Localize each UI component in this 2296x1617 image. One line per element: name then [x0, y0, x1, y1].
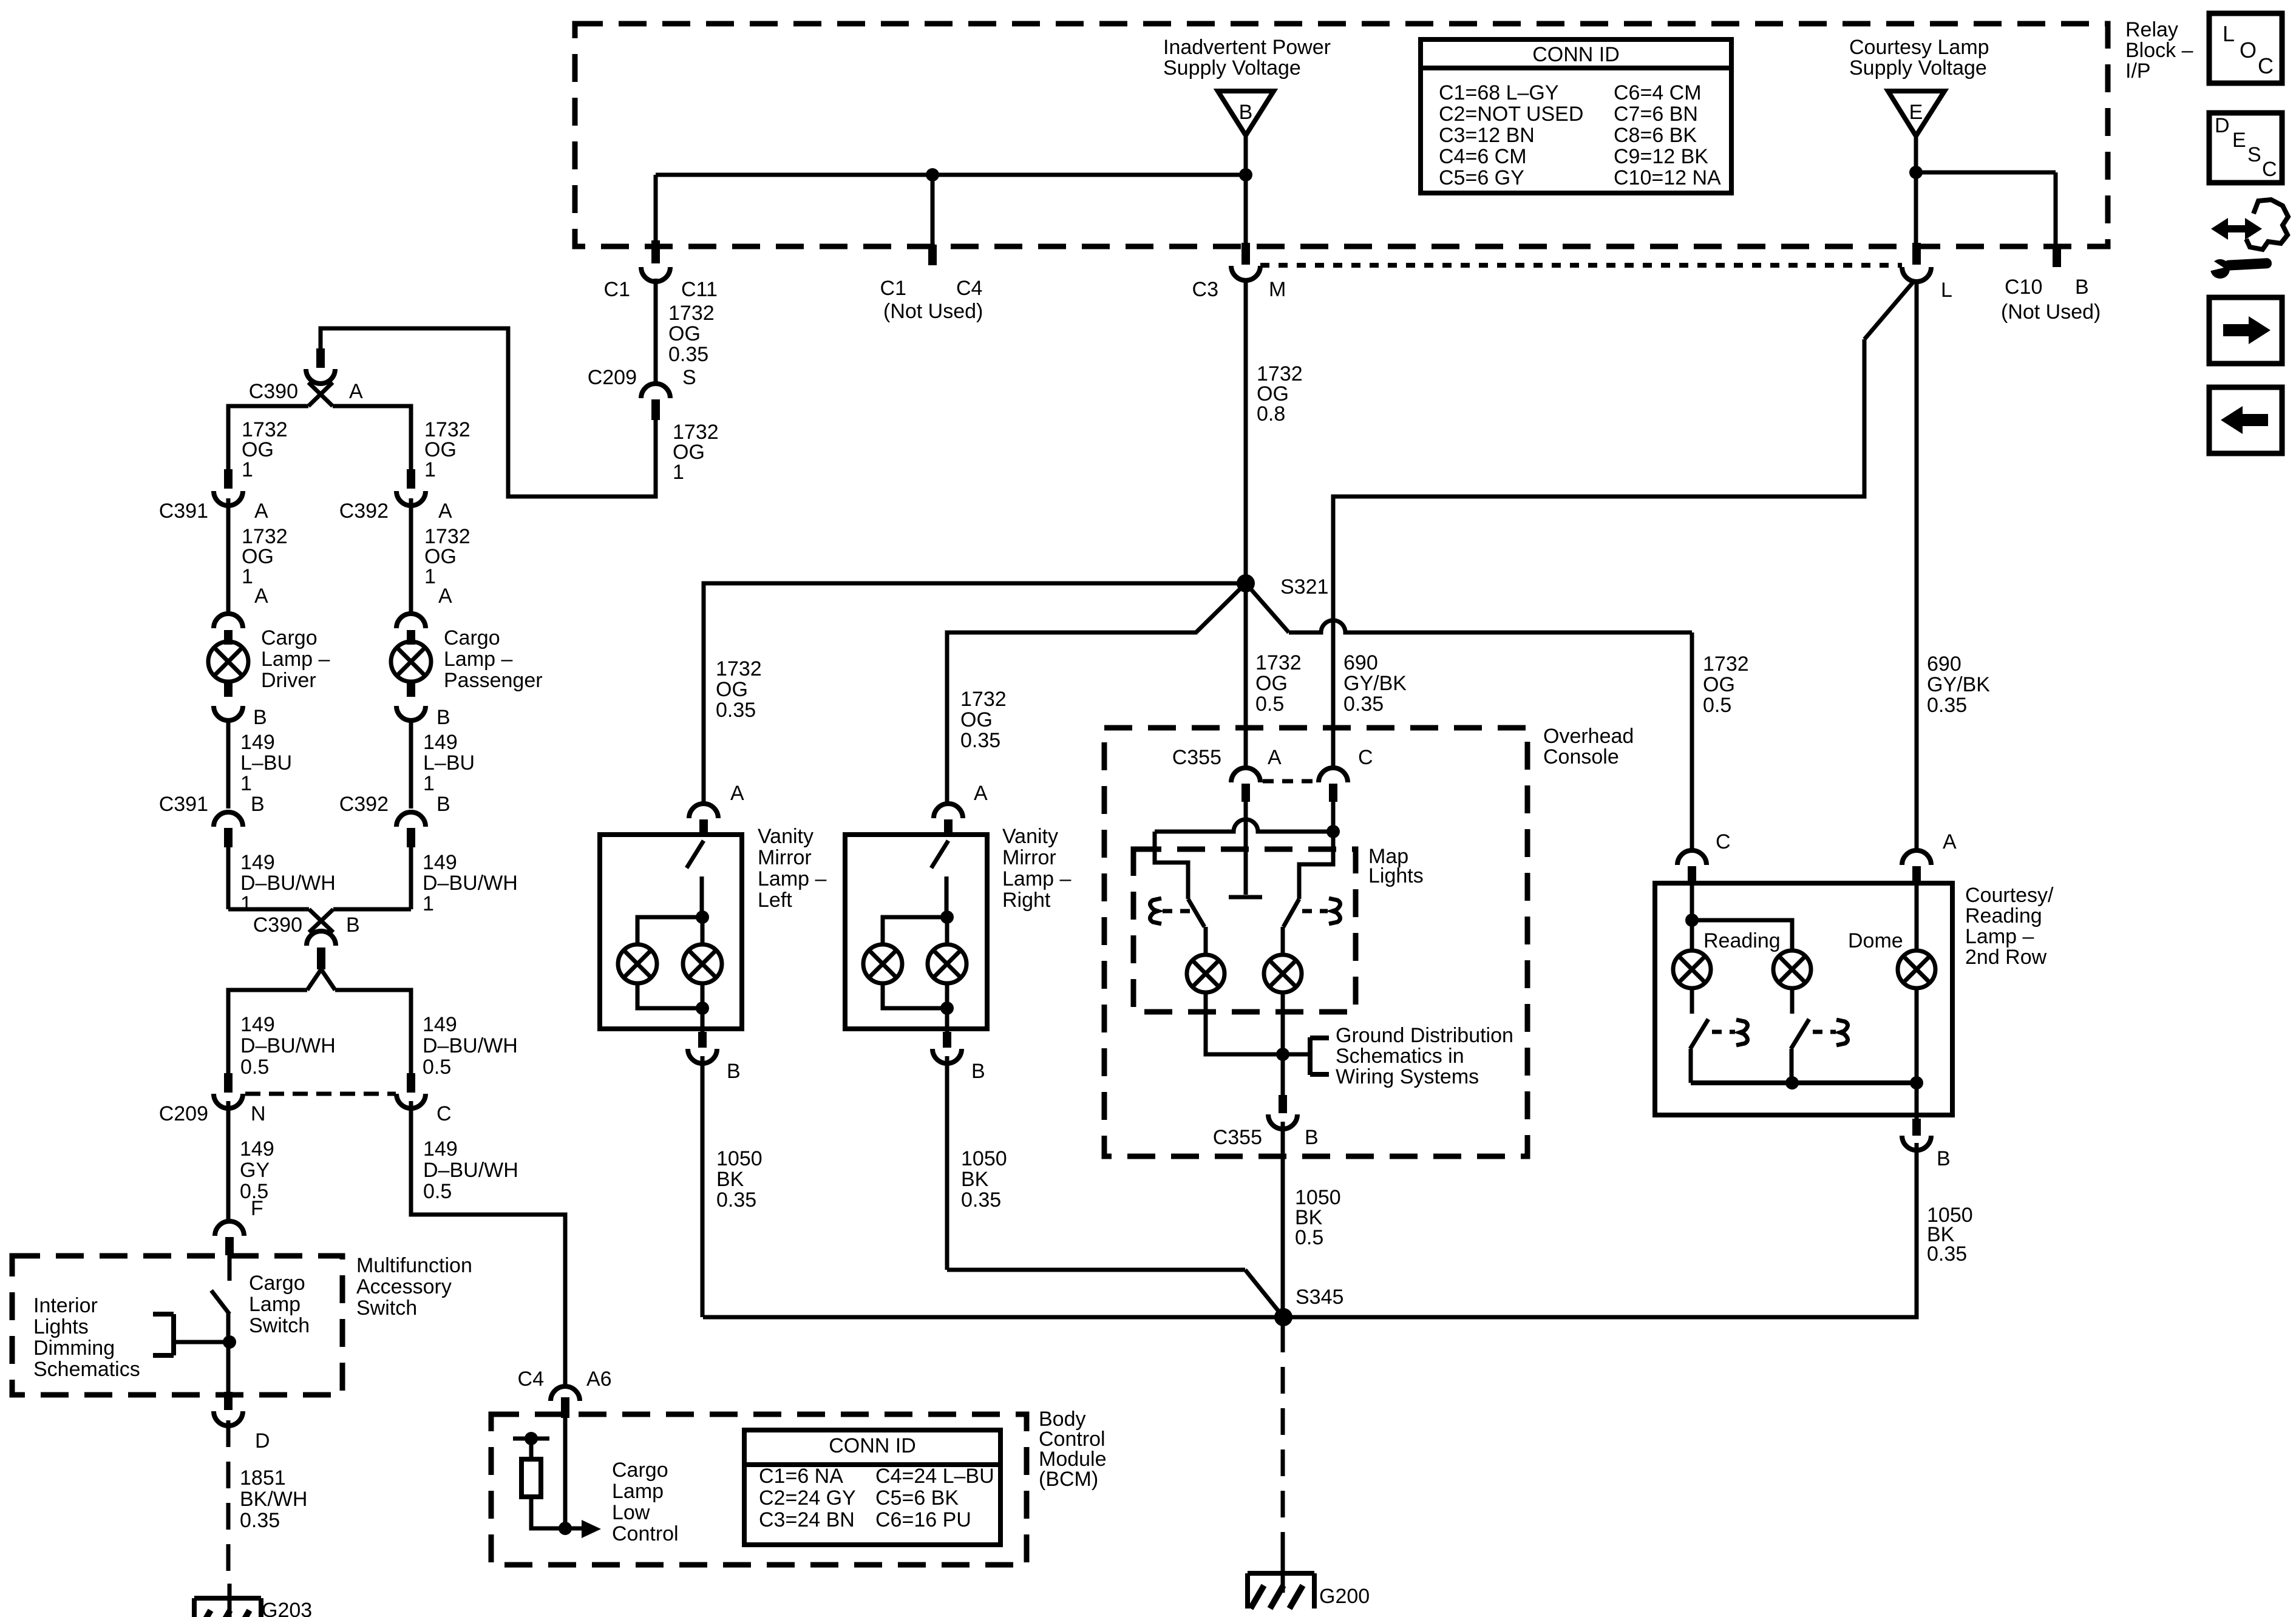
svg-text:Cargo: Cargo [444, 626, 500, 649]
svg-text:D–BU/WH: D–BU/WH [240, 872, 336, 895]
svg-text:Lamp –: Lamp – [1002, 867, 1071, 890]
svg-text:149: 149 [423, 731, 458, 754]
svg-text:B: B [436, 793, 450, 816]
label 149 D-BU/WH 0.5 (to BCM) [423, 1137, 518, 1203]
svg-text:Schematics in: Schematics in [1336, 1045, 1464, 1068]
label 1732 OG 1 (passenger branch) [424, 418, 470, 481]
svg-text:N: N [251, 1102, 266, 1125]
svg-text:S: S [2247, 143, 2261, 166]
connector C390 pin A [249, 348, 363, 403]
svg-text:C: C [1358, 746, 1373, 769]
split below C390 B [228, 969, 411, 1074]
splice S345 [703, 1286, 1343, 1326]
vanity left lamp 2 [683, 944, 722, 983]
svg-text:Vanity: Vanity [758, 825, 813, 848]
svg-text:Mirror: Mirror [1002, 846, 1056, 869]
svg-text:C2=24 GY: C2=24 GY [759, 1486, 856, 1510]
svg-text:BK/WH: BK/WH [240, 1488, 307, 1511]
power symbol E (Courtesy Lamp Supply Voltage) [1888, 91, 1944, 136]
label 149 D-BU/WH 1 (passenger) [423, 851, 518, 915]
svg-text:Dimming: Dimming [33, 1337, 115, 1360]
wire S321 down to C355 A [1244, 583, 1248, 769]
label 1050 BK 0.35 (vanity right) [961, 1147, 1007, 1212]
DESC navigation box [2209, 113, 2282, 183]
vanity right lamp 2 [928, 944, 966, 983]
courtesy ground rail [1691, 988, 1923, 1120]
svg-text:E: E [2232, 129, 2246, 152]
svg-text:1: 1 [423, 892, 434, 915]
wire 1732 OG 0.35 from C11 to C209 [654, 279, 658, 385]
label 1732 OG 1 (C392) [424, 525, 470, 588]
svg-text:B: B [251, 793, 265, 816]
svg-text:1: 1 [240, 892, 252, 915]
svg-text:OG: OG [668, 322, 701, 345]
connector C10 pin B (Not Used) [2001, 245, 2101, 324]
label 1732 OG 0.35 [668, 302, 715, 366]
svg-text:M: M [1269, 278, 1286, 301]
wire 1732 OG 1 into cargo lamp passenger [409, 498, 413, 615]
wire S321 to courtesy reading lamp C (with hop) [1246, 583, 1692, 852]
wire 1732 OG 1 into cargo lamp driver [226, 498, 231, 615]
svg-text:0.5: 0.5 [1255, 693, 1284, 716]
pin A cargo lamp passenger [396, 585, 452, 645]
connector C391 pin A [159, 469, 268, 523]
svg-text:C: C [2262, 158, 2277, 181]
svg-text:B: B [436, 706, 450, 729]
svg-text:Relay: Relay [2125, 18, 2178, 41]
svg-text:0.5: 0.5 [240, 1056, 269, 1079]
LOC navigation box [2209, 13, 2282, 83]
map lights dashed box [1133, 849, 1356, 1012]
wire 149 L-BU 1 driver [226, 720, 231, 808]
svg-text:C209: C209 [588, 366, 637, 389]
vanity right lamp 1 [863, 944, 902, 983]
svg-text:1732: 1732 [1255, 651, 1302, 674]
wire S345 to G200 (dashed) [1281, 1326, 1285, 1560]
svg-text:OG: OG [716, 678, 748, 701]
svg-text:1: 1 [423, 772, 435, 795]
svg-text:D–BU/WH: D–BU/WH [423, 1159, 518, 1182]
label 149 D-BU/WH 0.5 (left) [240, 1013, 336, 1079]
courtesy reading lamp 2nd row box [1655, 883, 1952, 1115]
svg-text:0.5: 0.5 [423, 1180, 452, 1203]
connector C209 pin N [159, 1073, 266, 1125]
svg-text:1732: 1732 [1703, 653, 1749, 676]
vanity left lamp 1 [618, 944, 657, 983]
svg-text:OG: OG [1255, 672, 1288, 695]
svg-text:A: A [438, 585, 452, 608]
wire S321 to vanity mirror right [947, 583, 1246, 805]
wire 1851 BK/WH 0.35 to G203 (dashed) [226, 1420, 231, 1585]
svg-text:149: 149 [240, 731, 275, 754]
svg-text:I/P: I/P [2125, 59, 2151, 83]
svg-text:Reading: Reading [1703, 929, 1781, 952]
wire from E to pins L and C10-B [1916, 136, 2056, 245]
svg-text:C9=12 BK: C9=12 BK [1614, 145, 1708, 168]
svg-text:C6=16 PU: C6=16 PU [875, 1508, 971, 1531]
vanity mirror left switch [687, 841, 704, 917]
wire to pin D [226, 1342, 231, 1393]
label 1732 OG 0.35 (vanity left) [716, 657, 762, 722]
label 1732 OG 0.35 (vanity right) [960, 688, 1007, 752]
wire 690 GY/BK from pin L [1333, 280, 1917, 852]
wire 149 D-BU/WH 1 passenger [409, 847, 413, 909]
ground G200 [1248, 1559, 1370, 1609]
svg-text:BK: BK [716, 1168, 744, 1191]
svg-text:1: 1 [242, 565, 253, 588]
map light lamp right [1264, 955, 1302, 992]
svg-text:Cargo: Cargo [261, 626, 318, 649]
svg-text:0.8: 0.8 [1257, 402, 1285, 425]
pin B cargo lamp driver [214, 680, 267, 729]
svg-text:149: 149 [240, 1137, 274, 1161]
svg-text:Lamp –: Lamp – [261, 648, 330, 671]
courtesy reading lamp 1 [1673, 951, 1711, 988]
vanity left lamps wiring [637, 910, 709, 1032]
wire bus inside relay block from B [656, 135, 1246, 245]
svg-text:B: B [971, 1060, 985, 1083]
pin F cargo lamp switch [215, 1197, 263, 1255]
cargo lamp passenger [391, 626, 543, 692]
svg-text:C2=NOT USED: C2=NOT USED [1439, 103, 1583, 126]
svg-text:E: E [1909, 101, 1923, 124]
label 1050 BK 0.5 [1295, 1186, 1341, 1249]
svg-text:B: B [1239, 101, 1253, 124]
svg-text:B: B [346, 914, 360, 937]
svg-text:1: 1 [424, 458, 436, 481]
svg-text:D–BU/WH: D–BU/WH [240, 1034, 336, 1057]
wire 1050 BK 0.5 to S345 [1281, 1122, 1285, 1317]
svg-text:0.35: 0.35 [716, 1188, 756, 1212]
schematic navigation icon (arrows and wrench) [2206, 200, 2288, 279]
svg-text:A: A [730, 782, 744, 805]
label Relay Block - I/P [2125, 18, 2193, 83]
junction C1/C4 branch [926, 168, 939, 181]
svg-text:S345: S345 [1296, 1286, 1343, 1309]
svg-text:0.35: 0.35 [961, 1188, 1001, 1212]
wire S321 to vanity mirror left [704, 583, 1246, 805]
overhead console dashed box [1104, 728, 1527, 1156]
map light right switch wiring [1283, 832, 1333, 955]
connector C391 pin B [159, 793, 265, 847]
svg-text:C: C [1716, 830, 1731, 853]
wire 690 GY/BK down from C355 C [1331, 802, 1336, 832]
label 149 GY 0.5 [240, 1137, 274, 1203]
svg-text:149: 149 [423, 1137, 458, 1161]
wire to cargo lamp driver branch [228, 406, 308, 470]
svg-text:Left: Left [758, 889, 792, 912]
svg-text:1: 1 [424, 565, 436, 588]
svg-text:C11: C11 [681, 278, 718, 301]
pin B vanity mirror left [688, 1032, 741, 1083]
svg-text:A: A [1268, 746, 1282, 769]
junction C355 C wire and rail [1326, 825, 1340, 838]
svg-text:C390: C390 [249, 380, 298, 403]
svg-text:149: 149 [423, 851, 457, 874]
svg-text:C355: C355 [1172, 746, 1221, 769]
svg-text:Mirror: Mirror [758, 846, 812, 869]
pin B courtesy lamp [1902, 1119, 1951, 1170]
label Map Lights [1368, 845, 1424, 887]
label Vanity Mirror Lamp - Right [1002, 825, 1071, 912]
svg-text:OG: OG [1703, 673, 1735, 696]
svg-text:GY/BK: GY/BK [1927, 673, 1990, 696]
forward navigation box [2209, 297, 2282, 364]
CONN ID table (BCM) [744, 1430, 1000, 1545]
wire 1050 BK 0.35 vanity left to S345 [701, 1056, 705, 1317]
svg-text:C1=68 L–GY: C1=68 L–GY [1439, 81, 1559, 104]
svg-text:1050: 1050 [716, 1147, 763, 1170]
harness boundary dotted line [1260, 263, 1902, 268]
svg-text:Lamp –: Lamp – [758, 867, 826, 890]
svg-text:C3=12 BN: C3=12 BN [1439, 124, 1535, 147]
label Cargo Lamp Switch [249, 1272, 310, 1337]
svg-text:F: F [251, 1197, 263, 1220]
wire 1050 BK 0.35 courtesy to S345 [1283, 1143, 1917, 1317]
svg-text:D–BU/WH: D–BU/WH [423, 1034, 518, 1057]
courtesy reading lamp 2 [1773, 951, 1811, 988]
wire C355 A to map light switches [1229, 802, 1262, 897]
resistor to output wire [531, 1497, 565, 1528]
body control module dashed box [491, 1414, 1027, 1565]
resistor (BCM internal) [521, 1459, 541, 1497]
label 690 GY/BK 0.35 (C355 C) [1343, 651, 1407, 716]
svg-text:Interior: Interior [33, 1294, 98, 1317]
map light right switch link [1302, 898, 1340, 924]
svg-text:(Not Used): (Not Used) [883, 300, 983, 323]
cargo lamp switch blade [211, 1255, 229, 1342]
svg-text:O: O [2240, 38, 2257, 63]
svg-text:B: B [2075, 276, 2089, 299]
svg-text:0.35: 0.35 [668, 343, 708, 366]
svg-text:1: 1 [240, 772, 252, 795]
svg-text:C1: C1 [880, 277, 906, 300]
svg-text:B: B [1937, 1147, 1951, 1170]
svg-text:D: D [255, 1429, 270, 1453]
svg-text:C4: C4 [518, 1368, 544, 1391]
svg-text:1: 1 [673, 461, 684, 484]
svg-text:Reading: Reading [1965, 904, 2042, 927]
svg-text:Accessory: Accessory [356, 1275, 452, 1298]
svg-text:GY: GY [240, 1159, 270, 1182]
svg-text:A: A [438, 500, 452, 523]
pin A courtesy lamp [1902, 830, 1957, 884]
svg-text:A: A [1943, 830, 1957, 853]
label Interior Lights Dimming Schematics [33, 1294, 140, 1381]
connector C1 pin C11 [604, 240, 718, 301]
svg-text:0.5: 0.5 [1703, 694, 1731, 717]
label Courtesy Lamp Supply Voltage [1849, 36, 1989, 80]
pin D cargo lamp switch [214, 1392, 270, 1453]
svg-text:C3: C3 [1192, 278, 1218, 301]
connector C355 pin A [1172, 746, 1282, 802]
svg-text:OG: OG [960, 708, 993, 731]
svg-text:B: B [1305, 1126, 1319, 1149]
svg-text:BK: BK [961, 1168, 989, 1191]
wire 149 L-BU 1 passenger [409, 720, 413, 808]
svg-text:C1: C1 [604, 278, 630, 301]
vanity mirror right switch [931, 841, 948, 917]
connector pin L [1902, 243, 1952, 302]
relay block I/P dashed outline [575, 24, 2108, 246]
BCM internal pull-up bar [513, 1432, 549, 1459]
svg-text:0.5: 0.5 [423, 1056, 451, 1079]
svg-text:1050: 1050 [961, 1147, 1007, 1170]
svg-text:L: L [2223, 21, 2235, 46]
svg-text:Lights: Lights [33, 1315, 89, 1338]
svg-text:S: S [682, 366, 696, 389]
wire S321 branch into courtesy C pin done above; pin C courtesy lamp [1677, 830, 1731, 884]
svg-text:C10: C10 [2005, 276, 2042, 299]
pin A vanity mirror left [689, 782, 744, 836]
svg-text:C6=4 CM: C6=4 CM [1614, 81, 1702, 104]
svg-text:C4=6 CM: C4=6 CM [1439, 145, 1527, 168]
svg-text:Switch: Switch [356, 1297, 417, 1320]
svg-text:Supply Voltage: Supply Voltage [1849, 56, 1987, 80]
connector C1 pin C4 (Not Used) [880, 245, 983, 323]
label Multifunction Accessory Switch [356, 1254, 472, 1320]
svg-text:C: C [2258, 53, 2274, 78]
multifunction accessory switch dashed box [12, 1256, 342, 1395]
svg-text:Lamp –: Lamp – [1965, 925, 2034, 948]
label Vanity Mirror Lamp - Left [758, 825, 826, 912]
courtesy switch 1 [1690, 988, 1708, 1083]
svg-text:Lamp: Lamp [612, 1480, 664, 1503]
svg-text:149: 149 [240, 1013, 275, 1036]
svg-text:0.35: 0.35 [716, 699, 756, 722]
svg-text:C: C [436, 1102, 452, 1125]
svg-text:Supply Voltage: Supply Voltage [1163, 56, 1301, 80]
pin A vanity mirror right [934, 782, 988, 836]
junction at switch output [223, 1335, 236, 1349]
BCM cargo lamp low control driver [559, 1418, 601, 1538]
svg-text:CONN ID: CONN ID [1532, 43, 1620, 66]
svg-text:CONN ID: CONN ID [829, 1434, 916, 1457]
power symbol B (Inadvertent Power Supply Voltage) [1218, 91, 1274, 135]
wire to cargo lamp passenger branch [333, 406, 411, 470]
svg-text:C391: C391 [159, 793, 208, 816]
svg-text:Courtesy/: Courtesy/ [1965, 884, 2054, 907]
svg-text:Lamp –: Lamp – [444, 648, 512, 671]
svg-text:Block –: Block – [2125, 39, 2193, 62]
svg-text:0.5: 0.5 [1295, 1226, 1323, 1249]
svg-text:Lamp: Lamp [249, 1293, 301, 1316]
svg-text:Inadvertent Power: Inadvertent Power [1163, 36, 1331, 59]
back navigation box [2209, 387, 2282, 453]
connector C3 pin M [1192, 243, 1286, 301]
svg-text:(Not Used): (Not Used) [2001, 300, 2101, 324]
svg-text:Wiring Systems: Wiring Systems [1336, 1065, 1479, 1088]
map light left switch wiring [1155, 832, 1206, 955]
wire 149 D-BU/WH 1 driver [226, 847, 231, 909]
svg-text:B: B [727, 1060, 741, 1083]
label 149 D-BU/WH 0.5 (right) [423, 1013, 518, 1079]
svg-text:L–BU: L–BU [240, 751, 292, 775]
svg-text:A: A [254, 500, 268, 523]
svg-text:Driver: Driver [261, 669, 316, 692]
courtesy switch 1 link [1712, 1020, 1748, 1045]
label 1851 BK/WH 0.35 [240, 1466, 307, 1532]
svg-text:C7=6 BN: C7=6 BN [1614, 103, 1698, 126]
svg-text:2nd Row: 2nd Row [1965, 946, 2047, 969]
svg-text:C355: C355 [1213, 1126, 1262, 1149]
svg-text:C1=6 NA: C1=6 NA [759, 1465, 843, 1488]
label Courtesy/Reading Lamp - 2nd Row [1965, 884, 2054, 969]
wire 1732 OG 1 routing C209 to C390 [321, 328, 656, 497]
wire 149 GY 0.5 to switch [226, 1101, 231, 1222]
map lamps ground wiring [1206, 992, 1289, 1096]
svg-text:C391: C391 [159, 500, 208, 523]
connector C209 pin C [396, 1073, 452, 1125]
label 149 L-BU 1 (passenger) [423, 731, 475, 795]
svg-text:Vanity: Vanity [1002, 825, 1058, 848]
svg-text:Cargo: Cargo [249, 1272, 305, 1295]
svg-text:Low: Low [612, 1501, 650, 1524]
splice into C390 pin B [228, 909, 411, 932]
label 1732 OG 1 (C391) [242, 525, 288, 588]
svg-text:B: B [253, 706, 267, 729]
label Dome [1848, 929, 1903, 952]
svg-text:1732: 1732 [960, 688, 1007, 711]
svg-text:GY/BK: GY/BK [1343, 672, 1407, 695]
svg-text:(BCM): (BCM) [1039, 1468, 1098, 1491]
svg-text:Console: Console [1543, 745, 1619, 768]
svg-text:Overhead: Overhead [1543, 725, 1634, 748]
svg-text:1: 1 [242, 458, 253, 481]
svg-text:Switch: Switch [249, 1314, 310, 1337]
svg-text:G203: G203 [262, 1599, 312, 1617]
label 1050 BK 0.35 (vanity left) [716, 1147, 763, 1212]
svg-text:1732: 1732 [668, 302, 715, 325]
label 1732 OG 0.5 (C355 A) [1255, 651, 1302, 716]
splice crossover below C390 A [308, 382, 333, 406]
label 1732 OG 1 below C209 [673, 421, 719, 484]
connector C209 pin S [588, 366, 696, 420]
map light left switch link [1150, 898, 1193, 924]
svg-text:A: A [974, 782, 988, 805]
vanity mirror lamp right box [845, 835, 987, 1029]
vanity mirror lamp left box [600, 835, 742, 1029]
svg-text:C4=24 L–BU: C4=24 L–BU [875, 1465, 994, 1488]
svg-text:0.35: 0.35 [1927, 694, 1967, 717]
svg-text:C5=6 BK: C5=6 BK [875, 1486, 959, 1510]
interior lights dimming link bracket [153, 1314, 228, 1355]
label 690 GY/BK 0.35 (courtesy A) [1927, 653, 1990, 717]
svg-text:C392: C392 [339, 793, 389, 816]
svg-text:Passenger: Passenger [444, 669, 543, 692]
svg-text:149: 149 [240, 851, 275, 874]
svg-text:690: 690 [1927, 653, 1961, 676]
connector C4 pin A6 [518, 1368, 612, 1418]
svg-text:C4: C4 [956, 277, 982, 300]
connector C209 mating line [245, 1092, 396, 1096]
connector C355 pin B [1213, 1095, 1319, 1149]
connector C392 pin B [339, 793, 450, 847]
courtesy switch 2 [1791, 988, 1809, 1083]
svg-text:C5=6 GY: C5=6 GY [1439, 166, 1524, 189]
svg-text:A: A [254, 585, 268, 608]
svg-text:C8=6 BK: C8=6 BK [1614, 124, 1697, 147]
svg-text:S321: S321 [1280, 575, 1328, 598]
courtesy lamp internal feed wiring [1685, 883, 1917, 951]
svg-text:Ground Distribution: Ground Distribution [1336, 1024, 1513, 1047]
svg-text:Dome: Dome [1848, 929, 1903, 952]
svg-text:0.35: 0.35 [1927, 1242, 1967, 1266]
connector C390 pin B [253, 914, 360, 969]
svg-text:C390: C390 [253, 914, 302, 937]
svg-text:Right: Right [1002, 889, 1051, 912]
svg-text:C209: C209 [159, 1102, 208, 1125]
